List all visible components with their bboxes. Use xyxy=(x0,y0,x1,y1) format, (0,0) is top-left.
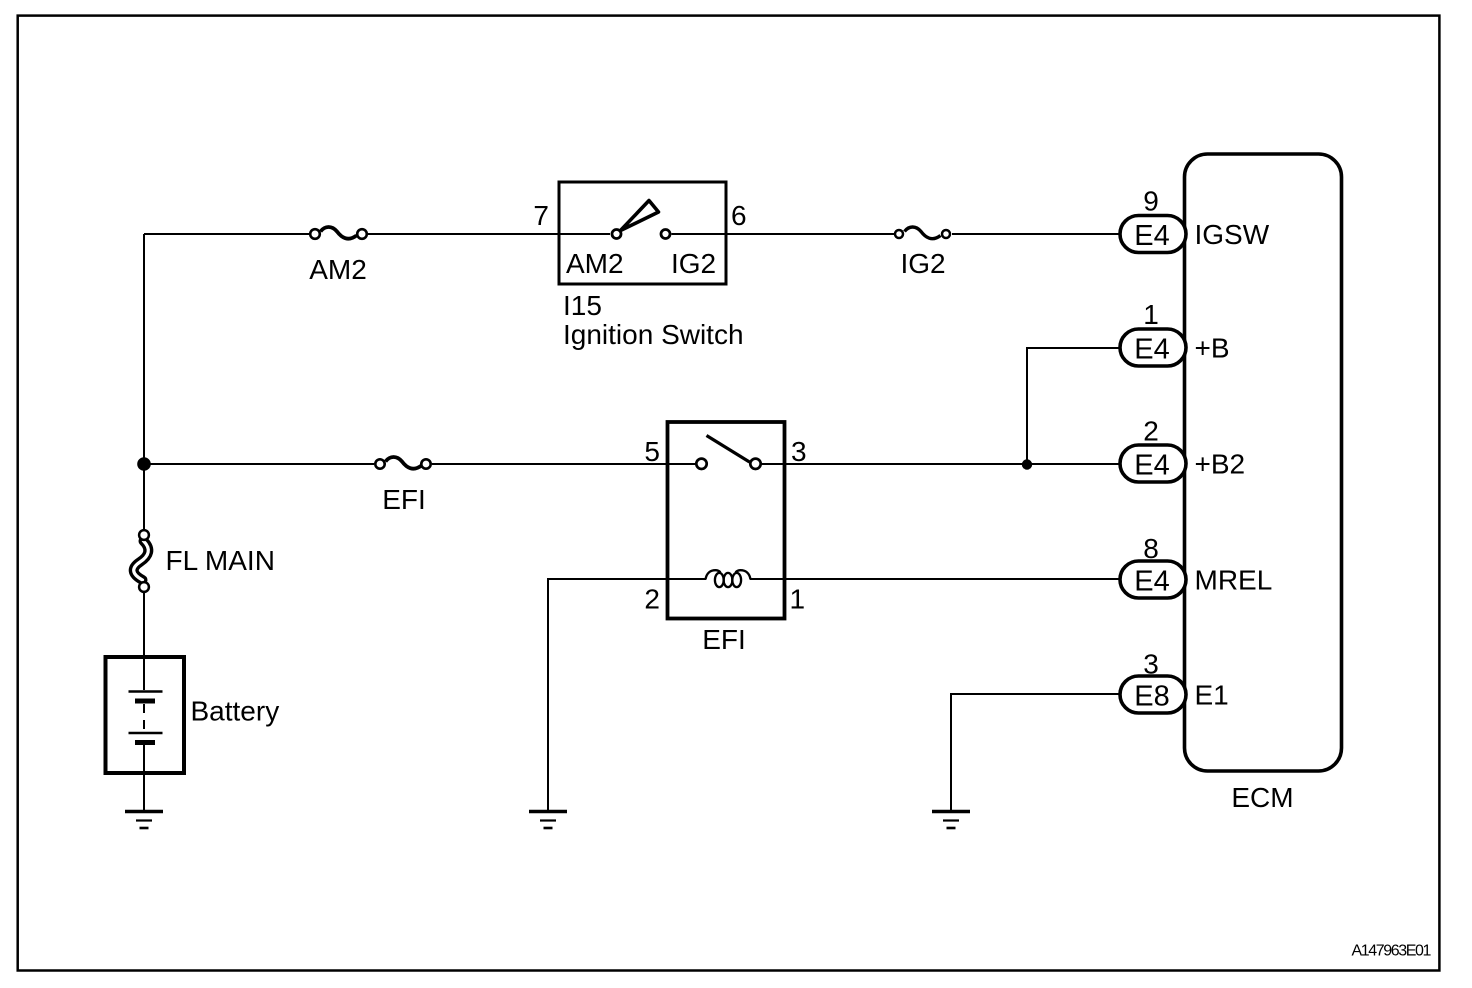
ground (E1) xyxy=(932,812,970,829)
ground (relay coil) xyxy=(529,812,567,829)
svg-text:EFI: EFI xyxy=(702,624,746,655)
wire: switch box left edge to AM2 contact xyxy=(559,233,610,235)
svg-text:1: 1 xyxy=(790,584,806,615)
svg-text:E8: E8 xyxy=(1134,681,1169,713)
svg-text:5: 5 xyxy=(644,436,660,467)
svg-text:AM2: AM2 xyxy=(566,248,624,279)
wire: FL MAIN to battery xyxy=(143,593,145,657)
svg-text:E4: E4 xyxy=(1134,334,1169,366)
svg-text:7: 7 xyxy=(533,200,549,231)
svg-text:8: 8 xyxy=(1143,533,1159,564)
wire: battery column vertical (top bus down to FL MAIN) xyxy=(143,234,145,529)
svg-text:2: 2 xyxy=(644,584,660,615)
connector E4 pin 1 (+B) xyxy=(1120,329,1186,366)
wire: junction to fuse EFI xyxy=(144,463,374,465)
svg-text:Ignition Switch: Ignition Switch xyxy=(563,319,744,350)
svg-text:AM2: AM2 xyxy=(309,254,367,285)
relay blade xyxy=(707,436,750,463)
svg-text:EFI: EFI xyxy=(382,484,426,515)
svg-text:1: 1 xyxy=(1143,299,1159,330)
battery xyxy=(106,657,185,773)
connector E8 pin 3 (E1) xyxy=(1120,676,1186,713)
relay contact (left) xyxy=(696,459,706,469)
switch lever xyxy=(621,201,659,231)
wire: relay coil row (left segment from ground drop to coil) xyxy=(548,579,706,810)
ECM box xyxy=(1185,154,1342,771)
connector E4 pin 9 (IGSW) xyxy=(1120,216,1186,253)
wire: fuse IG2 to connector E4 pin 9 xyxy=(952,233,1121,235)
wire: battery to ground xyxy=(143,773,145,810)
EFI relay box xyxy=(668,422,785,619)
fuse IG2 xyxy=(895,227,950,239)
relay contact (right) xyxy=(750,459,760,469)
connector E4 pin 2 (+B2) xyxy=(1120,445,1186,482)
svg-text:E4: E4 xyxy=(1134,450,1169,482)
svg-text:IG2: IG2 xyxy=(901,248,946,279)
svg-text:IG2: IG2 xyxy=(671,248,716,279)
wire: fuse AM2 to ignition switch pin 7 xyxy=(368,233,559,235)
svg-text:MREL: MREL xyxy=(1195,565,1273,596)
node: junction at EFI row xyxy=(137,457,151,471)
ignition switch I15 box xyxy=(559,182,726,284)
svg-text:E4: E4 xyxy=(1134,220,1169,252)
svg-text:E4: E4 xyxy=(1134,566,1169,598)
wire: ignition switch pin 6 to fuse IG2 xyxy=(726,233,894,235)
node: junction at +B riser xyxy=(1022,459,1032,469)
svg-text:9: 9 xyxy=(1143,186,1159,217)
svg-text:+B: +B xyxy=(1195,333,1230,364)
svg-text:FL MAIN: FL MAIN xyxy=(166,545,275,576)
svg-text:E1: E1 xyxy=(1195,680,1229,711)
svg-text:Battery: Battery xyxy=(191,696,280,727)
ground (battery) xyxy=(125,812,163,829)
svg-text:IGSW: IGSW xyxy=(1195,219,1270,250)
svg-text:A147963E01: A147963E01 xyxy=(1351,943,1431,960)
svg-text:6: 6 xyxy=(731,200,747,231)
wire: riser to +B xyxy=(1027,348,1121,464)
switch contact AM2 xyxy=(612,230,621,239)
wire: fuse EFI to relay pin 5 xyxy=(432,463,559,465)
switch contact IG2 xyxy=(661,230,670,239)
wire: E1 row xyxy=(951,694,1121,810)
relay coil xyxy=(706,570,751,587)
svg-text:2: 2 xyxy=(1143,416,1159,447)
fuse AM2 xyxy=(310,227,367,239)
svg-text:3: 3 xyxy=(1143,649,1159,680)
svg-text:3: 3 xyxy=(791,436,807,467)
svg-text:ECM: ECM xyxy=(1231,782,1293,813)
fusible link FL MAIN xyxy=(134,530,149,592)
wire: top bus from battery column to fuse AM2 xyxy=(144,233,310,235)
fuse EFI xyxy=(375,457,430,469)
wire: coil to MREL connector xyxy=(750,578,1121,580)
svg-text:+B2: +B2 xyxy=(1195,449,1246,480)
connector E4 pin 8 (MREL) xyxy=(1120,561,1186,598)
wire: relay right contact to junction and +B2 xyxy=(761,463,1121,465)
wire: IG2 contact to box right edge xyxy=(672,233,727,235)
svg-text:I15: I15 xyxy=(563,290,602,321)
